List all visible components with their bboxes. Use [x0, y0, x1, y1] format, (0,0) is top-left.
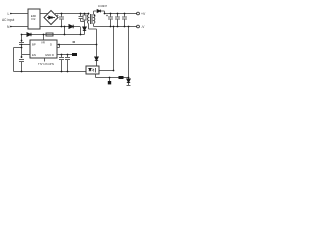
junction node at 109.5,77.5	[109, 77, 111, 79]
EMI filter box	[28, 9, 40, 29]
junction node at 117.5,13.5	[117, 13, 119, 15]
polarity mark C5	[106, 15, 108, 17]
wire IC top pin	[43, 35, 45, 41]
diode D3 output leads	[101, 10, 105, 12]
junction node at 21.5,40.5	[21, 40, 23, 42]
capacitor C3 feedback upper	[21, 35, 23, 43]
transformer T1 secondary leads	[93, 11, 95, 15]
zener Z1 symbol	[127, 79, 130, 83]
junction node at 21.5,57	[21, 56, 23, 58]
junction node at 67.5,71.5	[67, 71, 69, 73]
wire drain line	[57, 44, 97, 46]
wire EMI to bridge top	[40, 13, 48, 15]
wire IC source line	[57, 54, 77, 56]
diode D5 bias on line	[27, 33, 31, 36]
resistor R5 blob	[108, 81, 111, 84]
junction node at 43.5,34.5	[43, 34, 45, 36]
svg-text:+V: +V	[141, 12, 146, 16]
junction node at 128.5,26.5	[128, 26, 130, 28]
resistor R1 clamp	[84, 14, 86, 16]
junction node at 94.5,15.2	[94, 14, 96, 16]
bridge diode symbol	[47, 16, 55, 19]
resistor R5 divider drop	[109, 78, 111, 82]
svg-text:AC input: AC input	[2, 18, 14, 22]
junction node at 10.8,26.5	[10, 26, 12, 28]
capacitor C8 bypass	[61, 55, 63, 58]
capacitor C2 clamp	[80, 14, 82, 17]
wire N input	[11, 26, 28, 28]
source terminator blob	[72, 53, 77, 56]
diode D4 arrow	[95, 57, 98, 60]
capacitor C1 bulk	[61, 14, 63, 18]
component R4 on line B	[119, 76, 124, 79]
junction node at 21.5,34.5	[21, 34, 23, 36]
wire zener branch	[128, 27, 130, 80]
IC U1 box	[30, 40, 57, 58]
wire L input	[11, 13, 28, 15]
junction node at 110.5,26.5	[110, 26, 112, 28]
svg-text:VR: VR	[41, 41, 45, 45]
junction node at 21.5,44.5	[21, 44, 23, 46]
junction node at 10.8,13.5	[10, 13, 12, 15]
wire drain pin 2	[57, 47, 60, 49]
junction node at 80.5,13.5	[80, 13, 82, 15]
junction node at 59,44.5	[58, 44, 60, 46]
wire to +V terminal	[135, 13, 137, 15]
wire left bypass vertical	[13, 48, 15, 72]
junction node at 61.5,54.5	[61, 54, 63, 56]
junction node at 21.5,47.5	[21, 47, 23, 49]
junction node at 80.5,34.5	[80, 34, 82, 36]
capacitor C5 output	[110, 14, 112, 18]
capacitor C9 bypass	[67, 55, 69, 58]
label tick on drain wire	[73, 41, 76, 43]
junction node at 61.5,26.5	[61, 26, 63, 28]
junction dots	[10, 13, 129, 79]
svg-text:D: D	[50, 43, 52, 47]
terminal +V	[137, 12, 140, 15]
junction node at 64.5,34.5	[64, 34, 66, 36]
diode D4 opto feed	[96, 45, 98, 58]
wire IC left pin 1	[22, 44, 31, 46]
junction node at 104.5,13.5	[104, 13, 106, 15]
junction node at 96.5,44.5	[96, 44, 98, 46]
junction node at 113.5,26.5	[113, 26, 115, 28]
wire bottom rail	[14, 71, 87, 73]
junction node at 21.5,71.5	[21, 71, 23, 73]
wire to RTN terminal	[135, 26, 137, 28]
wire IC bottom pin	[44, 58, 46, 62]
junction node at 61.5,71.5	[61, 71, 63, 73]
junction node at 61.5,13.5	[61, 13, 63, 15]
junction node at 67.5,54.5	[67, 54, 69, 56]
junction node at 113.5,70.5	[113, 70, 115, 72]
svg-text:EN: EN	[32, 53, 36, 57]
wire clamp node	[81, 21, 85, 23]
svg-text:Fltr: Fltr	[31, 17, 35, 21]
polarity mark C1	[57, 15, 59, 17]
wire IC left pin 2	[22, 54, 31, 56]
junction node at 84.5,13.5	[84, 13, 86, 15]
junction node at 124.5,26.5	[124, 26, 126, 28]
wire output return rail	[94, 26, 136, 28]
wire output rail	[105, 13, 136, 15]
wire top DC rail	[55, 13, 88, 15]
junction node at 64.5,26.5	[64, 26, 66, 28]
diode D3 output	[97, 10, 100, 13]
terminal RTN	[137, 25, 140, 28]
diode D1 on dc return	[69, 25, 73, 29]
diode D2 clamp	[84, 22, 86, 28]
svg-text:TNY264PN: TNY264PN	[38, 62, 54, 66]
svg-text:1N4937: 1N4937	[98, 4, 108, 8]
wire opto emitter line B	[95, 74, 97, 78]
capacitor C6 output	[117, 14, 119, 18]
transformer T1 primary lead	[88, 14, 90, 15]
svg-text:L: L	[8, 12, 10, 16]
capacitor C4 feedback lower	[19, 59, 24, 61]
transformer T1	[87, 14, 94, 24]
bridge rectifier BR1	[44, 11, 58, 25]
svg-text:GND D: GND D	[45, 53, 54, 57]
junction node at 124.5,13.5	[124, 13, 126, 15]
junction node at 117.5,26.5	[117, 26, 119, 28]
wire opto collector line A	[99, 70, 114, 72]
wire bias line	[22, 34, 85, 36]
wire primary bottom route	[89, 28, 97, 30]
wire EMI to bridge bottom	[40, 26, 51, 28]
wire bottom DC rail	[51, 26, 80, 28]
diode D2 clamp arrow	[83, 27, 86, 30]
junction node at 128.5,77.5	[128, 77, 130, 79]
wire bias tap vertical	[64, 27, 66, 35]
svg-text:BP: BP	[32, 43, 36, 47]
resistor R2 bias	[46, 33, 53, 36]
optocoupler U2 box	[86, 66, 99, 74]
capacitor C7 output	[124, 14, 126, 18]
junction node at 110.5,13.5	[110, 13, 112, 15]
optocoupler U2 internals	[89, 68, 96, 73]
zener Z1	[128, 83, 130, 86]
junction node at 88.5,13.5	[88, 13, 90, 15]
wire clamp return	[80, 27, 82, 35]
